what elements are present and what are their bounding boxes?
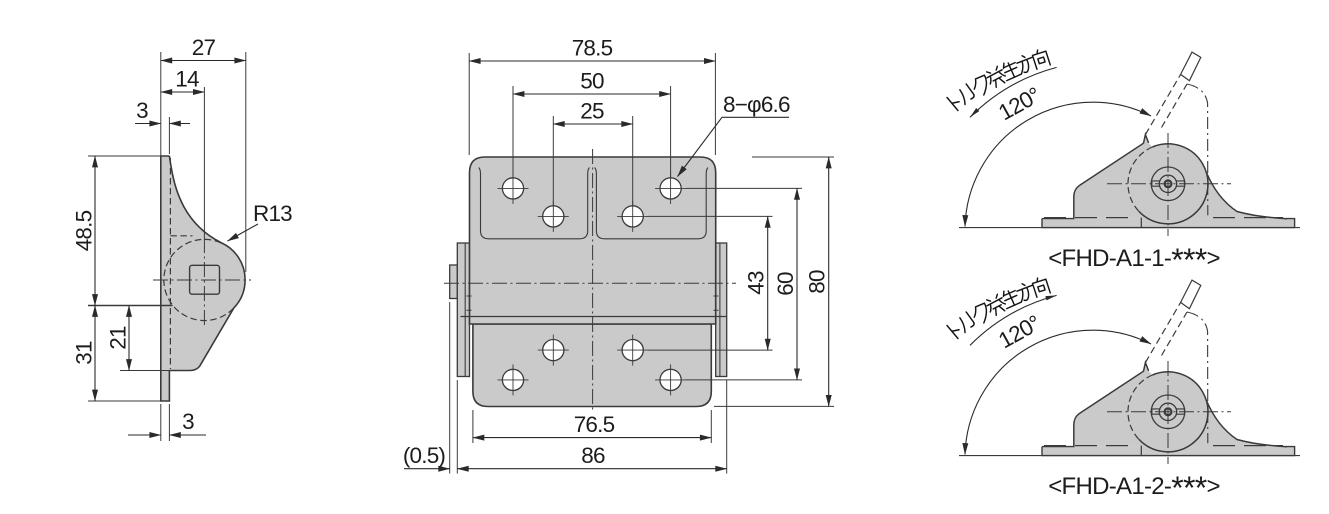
glyph ku [970,74,993,98]
closed leaf phantom [1187,84,1208,215]
glyph ru [956,84,976,105]
glyph kou [1031,48,1050,69]
body fill [1074,135,1287,219]
knuckle fold line [461,316,727,318]
dim 60 [796,188,798,380]
hub horizontal centerline [1107,183,1231,185]
drum hidden arc (dashed) [1128,147,1152,211]
hinge body boss (gray fill) [169,156,245,371]
moving leaf (dashed, open 120) left edge [1145,74,1180,134]
left tab inner edge [464,243,466,377]
dim 48.5 [94,156,96,306]
dim 43 [767,216,769,350]
dim 27 [161,60,246,62]
hole 5 [538,335,569,366]
dim 3 bottom extension lines [160,404,162,441]
square shaft hole [190,265,220,294]
svg-text:76.5: 76.5 [574,412,615,437]
knuckle hidden edge ticks [467,296,719,310]
dim 50 [513,93,671,95]
hidden boss circle (dashed arc) [164,239,234,320]
hole 2 [538,201,569,232]
svg-text:(0.5): (0.5) [403,443,446,468]
svg-text:3: 3 [182,409,194,434]
lower leaf plate [473,324,711,407]
vertical centerline [592,149,594,411]
ext lines top [468,53,470,155]
drum fill [1128,144,1208,224]
right side tab [716,243,727,377]
vertical centerline [203,238,205,328]
hidden body edge (dashed horizontal) [170,235,192,237]
right slot [1176,181,1185,186]
glyph to [947,93,963,110]
moving leaf tip (solid) [1181,52,1201,81]
dim 86 [457,468,726,470]
hole 8 [655,364,686,395]
dim 78.5 [469,60,715,62]
extension line left top [160,52,162,156]
upper leaf plate [470,157,716,324]
hole 3 [617,201,648,232]
svg-text:60: 60 [773,272,798,296]
dim 76.5 [473,437,711,439]
hole 4 [655,173,686,204]
svg-text:3: 3 [136,98,148,123]
torque direction indicator arc [970,67,1057,117]
dim 80 [828,157,830,406]
left slot [1152,181,1160,186]
plate outline [161,156,170,401]
hidden leaf edge in base (dashed) [1044,217,1283,219]
left side tab [457,243,469,377]
dim 31 [94,306,96,402]
glyph hou [1015,53,1036,75]
drum outline (solid arc) [1139,144,1208,224]
base plate fill [1042,219,1295,228]
hole 7 [498,364,529,395]
dim 3 top [135,123,161,125]
holes: 8 x phi6.6 [498,173,687,396]
extension line bottom (31) [88,400,161,402]
svg-text:25: 25 [580,99,604,124]
mounting plate (gray fill) [161,156,170,401]
svg-text:21: 21 [106,326,131,350]
glyph sei [1000,59,1022,81]
hole 1 [498,173,529,204]
horizontal centerline [153,279,251,281]
svg-text:78.5: 78.5 [572,36,613,61]
right tab inner edge [719,243,721,377]
svg-text:27: 27 [192,35,216,60]
svg-text:86: 86 [581,443,605,468]
base plate outline [1042,219,1295,228]
extension line 21 bottom [120,370,193,372]
R13 leader [228,224,259,241]
hidden plate edge (dashed) [169,158,171,369]
dim 14 [161,91,205,93]
upper leaf recess left [479,168,590,239]
svg-text:31: 31 [72,341,97,365]
view2 torque arrow (cw) [1045,295,1056,300]
hole 6 [617,335,648,366]
svg-text:48.5: 48.5 [72,210,97,251]
svg-text:43: 43 [744,271,769,295]
svg-text:R13: R13 [253,201,292,226]
svg-text:50: 50 [580,69,604,94]
middle view dimensions [403,36,834,474]
ground line [959,227,1300,229]
extension line (14 dim / centerline up) [203,87,205,238]
hub ring outer [1151,167,1185,201]
hinge axis centerline [444,282,736,284]
torque text (hand-drawn glyphs) [947,48,1050,111]
dim 3 bottom [128,434,161,436]
extension line top (48.5) [88,155,161,157]
dim 25 [553,123,632,125]
boss circle (gray fill) [164,239,245,320]
ski curve [1206,172,1287,219]
extension line right (27) [245,52,247,272]
hub ring inner [1165,180,1172,187]
120 degree arc [965,102,1151,226]
ext lines bottom [472,410,474,443]
moving leaf right edge [1162,84,1188,128]
body outline [1074,135,1149,219]
base seam [1140,218,1142,228]
svg-text:80: 80 [805,270,830,294]
bottom right view (copy) [947,276,1300,464]
dim 21 [128,306,130,371]
upper leaf recess right [595,168,708,239]
extension line mid (48.5/31) [88,305,173,307]
hub ring mid [1159,175,1176,192]
svg-text:14: 14 [175,67,199,92]
svg-text:8−φ6.6: 8−φ6.6 [723,92,790,117]
extension line plate right top (3) [168,117,170,154]
dim (0.5) [404,468,450,470]
hub vertical centerline [1167,133,1169,236]
view1 torque arrow (ccw) [970,108,979,117]
glyph hatsu [985,65,1008,89]
left pin tab small [450,265,458,299]
ext lines right [752,156,834,158]
body visible outline [169,156,245,371]
